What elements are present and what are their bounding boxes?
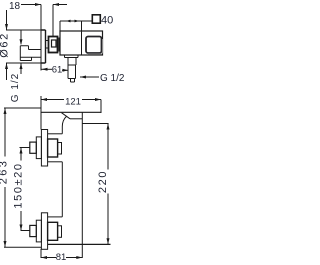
dim 121 line left + arrow	[41, 99, 64, 101]
G 1/2 left text	[10, 73, 21, 102]
svg-text:263: 263	[0, 159, 10, 185]
wall line upper segment	[40, 96, 42, 130]
G 1/2 right text	[100, 73, 125, 84]
O62 top arrow	[6, 10, 8, 30]
upper union axis ext	[20, 147, 30, 149]
dim 263 line bottom arrow	[4, 187, 6, 247]
lower union step top	[48, 216, 63, 218]
svg-text:121: 121	[65, 97, 81, 108]
upper union cap	[58, 143, 62, 155]
outlet cap	[71, 79, 75, 83]
lower union axis ext	[21, 230, 30, 232]
body rect	[60, 31, 103, 55]
dim 220 bottom arrow	[107, 194, 109, 245]
O62 ext line bottom	[6, 62, 41, 64]
dim 150+-20 line top arrow	[20, 148, 22, 161]
dim 150+-20 line bottom arrow	[20, 211, 22, 231]
upper union flange	[36, 137, 41, 159]
outlet box	[68, 58, 76, 79]
handle left edge + 81 ext	[81, 112, 83, 258]
dim 263 text	[0, 159, 10, 185]
svg-text:220: 220	[97, 170, 109, 193]
step line	[58, 38, 60, 52]
dim 150+-20 text	[13, 162, 25, 208]
left nipple pipe	[20, 46, 41, 61]
neck lines plate to fitting	[46, 41, 49, 49]
upper union step bottom	[48, 161, 63, 163]
body bottom edge + 220 bottom ext	[48, 243, 111, 245]
handle square shadow	[88, 39, 103, 54]
G 1/2 left leader arrow	[20, 63, 22, 74]
263 ext bottom	[4, 246, 42, 248]
svg-text:81: 81	[56, 252, 67, 263]
dim 61 top: left segment + arrow	[42, 68, 53, 70]
svg-text:40: 40	[101, 15, 113, 27]
dim 18 line left segment	[21, 4, 41, 6]
dim 61 right segment + arrow	[62, 69, 68, 71]
220 top ext	[82, 123, 108, 125]
G 1/2 right leader	[80, 76, 99, 78]
lower union nut	[48, 222, 58, 240]
dim 40 arrow left-pointing	[66, 20, 71, 23]
inner shelf line	[70, 118, 82, 120]
dim 81 line right + arrow	[66, 257, 82, 259]
outlet pipe	[68, 65, 76, 79]
O62 bottom arrow	[6, 63, 8, 80]
text 40	[101, 15, 113, 27]
svg-text:G 1/2: G 1/2	[100, 73, 125, 84]
plate (escutcheon edge-on)	[41, 30, 46, 63]
lower union flange	[36, 220, 41, 242]
square symbol of 40 label	[92, 15, 100, 23]
svg-text:150±20: 150±20	[13, 162, 25, 208]
dim 40 arrow right-pointing	[75, 20, 80, 23]
shoulder arc	[62, 116, 66, 126]
dim 220 text	[97, 170, 109, 193]
svg-text:G 1/2: G 1/2	[10, 73, 21, 102]
upper union stub	[30, 142, 37, 153]
inner chamfer	[62, 113, 71, 119]
svg-text:18: 18	[9, 1, 21, 12]
dim 18 arrow right-pointing	[35, 3, 41, 6]
ext line x=53	[52, 5, 54, 37]
square fitting inner	[52, 40, 57, 47]
body divider	[81, 31, 83, 55]
svg-text:61: 61	[52, 65, 63, 76]
upper union nut	[48, 139, 58, 157]
handle square face	[86, 37, 102, 54]
wall line lower segment	[40, 249, 42, 258]
dim 40 line	[60, 20, 92, 22]
left nipple nut	[20, 46, 31, 61]
ext line x=41 (wall face, extends to 61-dim)	[40, 5, 42, 71]
dim 18 line right segment	[53, 4, 67, 6]
svg-text:Ø62: Ø62	[0, 32, 11, 58]
dim 18 text	[9, 1, 21, 12]
263 ext top	[4, 107, 41, 109]
O62 text	[0, 32, 11, 58]
O62 ext line top	[6, 29, 41, 31]
dim 40 ext right	[81, 21, 83, 31]
upper union step top	[48, 133, 63, 135]
lower union rosette	[41, 213, 47, 250]
square fitting outer	[49, 37, 58, 53]
upper union rosette	[41, 130, 47, 167]
dim 40 ext left	[59, 21, 61, 31]
ext line x=101 (121 right ext)	[100, 100, 102, 114]
body top edge	[41, 111, 102, 113]
leader arrow down at nut	[20, 30, 22, 44]
dim 61 text	[52, 65, 63, 76]
dim 263 line top arrow	[4, 108, 6, 157]
lower union cap	[58, 226, 62, 238]
lower union stub	[30, 225, 37, 236]
dim 121 line right + arrow	[82, 99, 101, 101]
outlet neck below body	[65, 55, 79, 58]
body front edge upper	[61, 127, 63, 134]
dim 121 text	[65, 97, 81, 108]
body front edge mid	[61, 162, 63, 217]
dim 220 top arrow	[107, 124, 109, 170]
dim 81 text	[56, 252, 67, 263]
dim 18 arrow left-pointing	[53, 3, 59, 6]
dim 81 line left + arrow	[41, 257, 56, 259]
